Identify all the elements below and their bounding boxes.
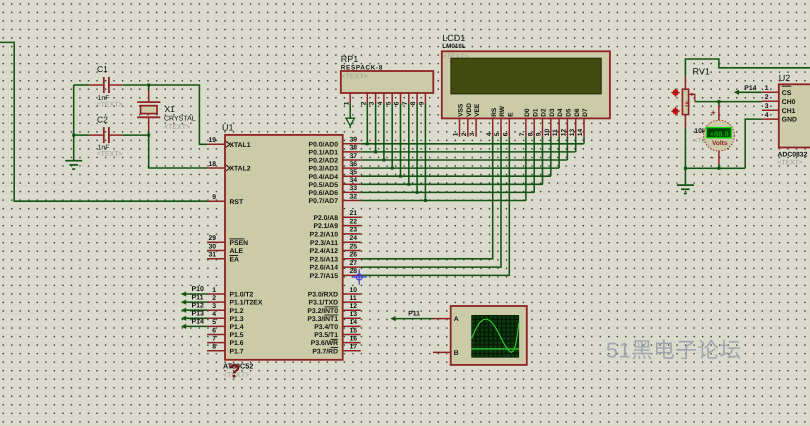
svg-text:P1.1/T2EX: P1.1/T2EX bbox=[230, 300, 263, 307]
svg-text:CH1: CH1 bbox=[782, 108, 796, 115]
svg-text:<TEXT>: <TEXT> bbox=[164, 124, 190, 131]
svg-text:39: 39 bbox=[350, 137, 358, 144]
U1 pin P0.5/AD5 (34) bbox=[309, 177, 361, 189]
capacitor C2 bbox=[89, 115, 122, 159]
svg-text:36: 36 bbox=[350, 161, 358, 168]
U1 pin P3.2/INT0 (12) bbox=[307, 303, 360, 315]
junction voltmeter minus bbox=[717, 167, 720, 170]
wire D6 vertical bbox=[575, 137, 577, 152]
svg-text:13: 13 bbox=[350, 311, 358, 318]
svg-text:P14: P14 bbox=[192, 319, 205, 326]
wire D3 vertical bbox=[550, 137, 552, 177]
svg-text:P0.6/AD6: P0.6/AD6 bbox=[309, 190, 339, 197]
wire rail to U2 GND bbox=[745, 119, 762, 168]
svg-text:8: 8 bbox=[527, 132, 534, 136]
svg-text:28: 28 bbox=[350, 268, 358, 275]
svg-text:34: 34 bbox=[350, 177, 358, 184]
svg-text:P3.6/WR: P3.6/WR bbox=[311, 340, 338, 347]
net label P11 wire (scope A) bbox=[390, 311, 433, 322]
svg-text:LCD1: LCD1 bbox=[442, 33, 465, 43]
RP1 pin 2 bbox=[360, 93, 368, 145]
U1 pin P1.7 (8) bbox=[207, 344, 244, 356]
wire P0.1 row bbox=[361, 151, 576, 153]
svg-text:D1: D1 bbox=[532, 108, 539, 117]
RP1 pin 7 bbox=[402, 93, 410, 186]
svg-text:19: 19 bbox=[208, 137, 216, 144]
svg-text:16: 16 bbox=[350, 335, 358, 342]
svg-text:P2.2/A10: P2.2/A10 bbox=[310, 232, 339, 239]
svg-text:VDD: VDD bbox=[466, 103, 473, 117]
svg-text:P0.0/AD0: P0.0/AD0 bbox=[309, 141, 339, 148]
ground (C1/C2) bbox=[65, 161, 82, 169]
wire E to P2.7 bbox=[361, 137, 510, 276]
svg-text:P3.4/T0: P3.4/T0 bbox=[314, 324, 338, 331]
junction crystal top bbox=[147, 84, 150, 87]
scope trace B (flat) bbox=[471, 348, 519, 350]
svg-text:D0: D0 bbox=[524, 108, 531, 117]
U1 pin XTAL2 (18) bbox=[207, 161, 251, 173]
svg-text:?: ? bbox=[229, 362, 241, 383]
svg-text:RV1: RV1 bbox=[693, 67, 710, 77]
scope trace A (sine) bbox=[472, 319, 520, 352]
svg-text:P2.6/A14: P2.6/A14 bbox=[310, 265, 339, 272]
svg-text:22: 22 bbox=[350, 218, 358, 225]
svg-text:<TEXT>: <TEXT> bbox=[97, 102, 123, 109]
U1 pin P0.1/AD1 (38) bbox=[309, 145, 361, 157]
wire C2 right to crystal bbox=[122, 134, 148, 136]
U2 pin CS (1) bbox=[762, 85, 792, 97]
terminal dot bottom bbox=[672, 108, 678, 114]
svg-text:D5: D5 bbox=[566, 108, 573, 117]
svg-text:5: 5 bbox=[212, 319, 216, 326]
U1 pin P2.6/A14 (27) bbox=[310, 260, 361, 272]
U1 pin P2.3/A11 (24) bbox=[310, 235, 361, 247]
wire D4 vertical bbox=[558, 137, 560, 169]
svg-text:P0.2/AD2: P0.2/AD2 bbox=[309, 158, 339, 165]
U1 pin P3.1/TXD (11) bbox=[309, 295, 361, 307]
wire C1 left bbox=[74, 84, 90, 86]
terminal dot top bbox=[672, 90, 678, 96]
RP1 pin 9 bbox=[419, 93, 427, 202]
svg-text:P11: P11 bbox=[192, 294, 204, 301]
U1 pin P1.1/T2EX (2) bbox=[207, 295, 263, 307]
U1 value AT89C52 bbox=[223, 362, 253, 383]
svg-text:5: 5 bbox=[385, 101, 392, 105]
svg-text:32: 32 bbox=[350, 193, 358, 200]
svg-text:VSS: VSS bbox=[458, 103, 465, 117]
svg-text:P1.7: P1.7 bbox=[230, 348, 244, 355]
svg-text:P13: P13 bbox=[192, 311, 205, 318]
U1 pin P2.2/A10 (23) bbox=[310, 227, 361, 239]
svg-text:GND: GND bbox=[782, 117, 797, 124]
svg-text:29: 29 bbox=[208, 235, 216, 242]
svg-text:6: 6 bbox=[502, 132, 509, 136]
svg-text:RP1: RP1 bbox=[341, 54, 359, 64]
U1 pin P2.1/A9 (22) bbox=[313, 218, 360, 230]
svg-text:38: 38 bbox=[350, 145, 358, 152]
U1 pin P0.4/AD4 (35) bbox=[309, 169, 361, 181]
svg-text:P3.3/INT1: P3.3/INT1 bbox=[307, 316, 338, 323]
wire P0.0 row bbox=[361, 143, 584, 145]
svg-text:EA: EA bbox=[230, 256, 240, 263]
svg-text:25: 25 bbox=[350, 243, 358, 250]
cursor crosshair bbox=[352, 269, 367, 284]
svg-text:3: 3 bbox=[469, 132, 476, 136]
svg-text:P0.4/AD4: P0.4/AD4 bbox=[309, 174, 339, 181]
RP1 pin 3 bbox=[369, 93, 377, 153]
lcd LCD1 body bbox=[442, 33, 610, 118]
junction wiper/voltmeter bbox=[717, 100, 720, 103]
capacitor C1 bbox=[89, 64, 122, 109]
U1 pin P3.5/T1 (15) bbox=[314, 327, 361, 339]
svg-text:D4: D4 bbox=[557, 108, 564, 117]
svg-text:6: 6 bbox=[212, 327, 216, 334]
wire P0.3 row bbox=[361, 167, 559, 169]
wire C1 right to XTAL1 bbox=[122, 85, 207, 144]
svg-text:P1.5: P1.5 bbox=[230, 332, 244, 339]
svg-text:U1: U1 bbox=[222, 123, 234, 133]
wire D7 vertical bbox=[583, 137, 585, 144]
svg-text:CS: CS bbox=[782, 90, 792, 97]
RP1 pin 8 bbox=[410, 93, 418, 194]
svg-text:17: 17 bbox=[350, 344, 358, 351]
svg-text:P10: P10 bbox=[192, 286, 205, 293]
RP1 pin 6 bbox=[394, 93, 402, 178]
svg-text:9: 9 bbox=[212, 194, 216, 201]
wire P0.5 row bbox=[361, 183, 543, 185]
RP1 pin 5 bbox=[385, 93, 393, 170]
net label P10 wire bbox=[181, 286, 207, 296]
svg-text:D6: D6 bbox=[574, 108, 581, 117]
svg-text:1k: 1k bbox=[684, 100, 691, 107]
svg-text:1: 1 bbox=[212, 287, 216, 294]
svg-text:9: 9 bbox=[419, 101, 426, 105]
svg-text:30: 30 bbox=[208, 243, 216, 250]
oscilloscope body bbox=[433, 306, 527, 365]
svg-text:P3.7/RD: P3.7/RD bbox=[312, 348, 338, 355]
svg-text:P3.5/T1: P3.5/T1 bbox=[314, 332, 338, 339]
svg-text:21: 21 bbox=[350, 210, 358, 217]
resistor pack RP1 body bbox=[341, 54, 434, 93]
svg-text:8: 8 bbox=[212, 344, 216, 351]
svg-text:4: 4 bbox=[765, 112, 769, 119]
wire from left edge to RST bbox=[0, 42, 207, 201]
svg-text:13: 13 bbox=[569, 129, 576, 137]
svg-text:3: 3 bbox=[369, 101, 376, 105]
LCD pin D0 (7) bbox=[519, 108, 531, 136]
svg-text:X1: X1 bbox=[165, 104, 176, 114]
svg-text:33: 33 bbox=[350, 185, 358, 192]
wire RW to P2.6 bbox=[361, 137, 501, 268]
svg-text:35: 35 bbox=[350, 169, 358, 176]
svg-text:P2.0/A8: P2.0/A8 bbox=[313, 215, 338, 222]
net label P14 wire bbox=[181, 319, 207, 329]
U1 pin P0.0/AD0 (39) bbox=[309, 137, 361, 149]
power terminal (RP1 pin1) bbox=[346, 118, 355, 125]
U1 pin P2.4/A12 (25) bbox=[310, 243, 361, 255]
wire D0 vertical bbox=[525, 137, 527, 201]
svg-text:7: 7 bbox=[212, 335, 216, 342]
U1 pin P2.0/A8 (21) bbox=[313, 210, 360, 222]
svg-text:27: 27 bbox=[350, 260, 358, 267]
LCD pin VEE (3) bbox=[469, 103, 481, 136]
svg-text:CRYSTAL: CRYSTAL bbox=[164, 116, 196, 123]
svg-text:12: 12 bbox=[561, 129, 568, 137]
svg-text:D3: D3 bbox=[549, 108, 556, 117]
svg-text:10: 10 bbox=[544, 129, 551, 137]
LCD pin D3 (10) bbox=[544, 108, 556, 136]
voltmeter bbox=[704, 102, 735, 169]
wire P0.6 row bbox=[361, 191, 535, 193]
U2 pin CH1 (3) bbox=[762, 103, 796, 115]
svg-text:10: 10 bbox=[350, 287, 358, 294]
U1 pin P1.3 (4) bbox=[207, 311, 244, 323]
wire C1/C2 vertical bbox=[73, 85, 75, 160]
wire pot bottom bbox=[684, 128, 686, 168]
svg-text:51黑电子论坛: 51黑电子论坛 bbox=[606, 339, 742, 363]
svg-text:4: 4 bbox=[486, 132, 493, 136]
wire pot top to right edge bbox=[685, 59, 810, 76]
LCD pin D4 (11) bbox=[552, 108, 564, 136]
junction crystal/C2 bbox=[147, 134, 150, 137]
svg-text:15: 15 bbox=[350, 327, 358, 334]
LCD pin VSS (1) bbox=[453, 103, 465, 136]
svg-text:P3.2/INT0: P3.2/INT0 bbox=[307, 308, 338, 315]
svg-text:P0.5/AD5: P0.5/AD5 bbox=[309, 182, 339, 189]
U1 pin EA (31) bbox=[207, 252, 239, 264]
svg-text:ADC0832: ADC0832 bbox=[778, 152, 808, 159]
svg-text:+88.8: +88.8 bbox=[710, 130, 729, 139]
U2 pin GND (4) bbox=[762, 112, 797, 124]
U1 pin P0.6/AD6 (33) bbox=[309, 185, 361, 197]
svg-text:P0.7/AD7: P0.7/AD7 bbox=[309, 198, 339, 205]
wire wiper to CH0 bbox=[695, 101, 762, 103]
U1 pin P0.2/AD2 (37) bbox=[309, 153, 361, 165]
LCD pin D6 (13) bbox=[569, 108, 581, 136]
svg-text:RESPACK-8: RESPACK-8 bbox=[341, 65, 383, 72]
crystal X1 bbox=[137, 90, 195, 131]
svg-text:P1.0/T2: P1.0/T2 bbox=[230, 292, 254, 299]
svg-text:23: 23 bbox=[350, 227, 358, 234]
potentiometer RV1 bbox=[682, 67, 719, 145]
U1 pin RST (9) bbox=[207, 194, 244, 206]
RP1 pin 4 bbox=[377, 93, 385, 162]
wire crystal top bbox=[148, 85, 150, 90]
U1 pin XTAL1 (19) bbox=[207, 137, 251, 149]
svg-text:37: 37 bbox=[350, 153, 358, 160]
svg-text:P2.7/A15: P2.7/A15 bbox=[310, 273, 339, 280]
LCD pin D1 (8) bbox=[527, 108, 539, 136]
U1 pin P3.3/INT1 (13) bbox=[307, 311, 360, 323]
U1 pin P3.6/WR (16) bbox=[311, 335, 361, 347]
U1 pin PSEN (29) bbox=[207, 235, 248, 247]
svg-text:B: B bbox=[454, 350, 459, 357]
svg-text:2: 2 bbox=[360, 101, 367, 105]
svg-text:2: 2 bbox=[765, 94, 769, 101]
svg-text:P1.6: P1.6 bbox=[230, 340, 244, 347]
svg-text:<TEXT>: <TEXT> bbox=[97, 151, 123, 158]
svg-text:D2: D2 bbox=[541, 108, 548, 117]
net label P12 wire bbox=[181, 302, 207, 312]
svg-text:P0.1/AD1: P0.1/AD1 bbox=[309, 150, 339, 157]
svg-text:1: 1 bbox=[765, 85, 769, 92]
svg-text:5: 5 bbox=[494, 132, 501, 136]
LCD pin D5 (12) bbox=[561, 108, 573, 136]
svg-text:P2.1/A9: P2.1/A9 bbox=[313, 223, 338, 230]
svg-text:2: 2 bbox=[461, 132, 468, 136]
U1 pin P3.7/RD (17) bbox=[312, 344, 360, 356]
wire crystal bottom to XTAL2 bbox=[149, 131, 207, 168]
svg-text:<TEXT>: <TEXT> bbox=[778, 160, 803, 167]
svg-text:6: 6 bbox=[394, 101, 401, 105]
U1 pin P1.2 (3) bbox=[207, 303, 244, 315]
wire D1 vertical bbox=[533, 137, 535, 193]
U1 pin P2.5/A13 (26) bbox=[310, 252, 361, 264]
LCD pin RS (4) bbox=[486, 107, 498, 136]
svg-text:8: 8 bbox=[410, 101, 417, 105]
svg-text:P2.3/A11: P2.3/A11 bbox=[310, 240, 338, 247]
ground (RV1 rail) bbox=[677, 185, 694, 193]
svg-text:RST: RST bbox=[230, 199, 244, 206]
svg-text:D7: D7 bbox=[582, 108, 589, 117]
U1 pin P0.3/AD3 (36) bbox=[309, 161, 361, 173]
LCD pin D2 (9) bbox=[536, 108, 548, 136]
svg-text:P11: P11 bbox=[408, 311, 420, 318]
junction pot bottom bbox=[684, 167, 687, 170]
svg-text:-: - bbox=[711, 152, 714, 162]
svg-text:LM016L: LM016L bbox=[442, 43, 466, 50]
wire D5 vertical bbox=[566, 137, 568, 160]
U2 value ADC0832 bbox=[778, 152, 808, 167]
svg-text:4: 4 bbox=[212, 311, 216, 318]
LCD pin E (6) bbox=[502, 112, 514, 137]
svg-text:P3.1/TXD: P3.1/TXD bbox=[309, 300, 339, 307]
svg-text:4: 4 bbox=[377, 101, 384, 105]
svg-text:1: 1 bbox=[453, 132, 460, 136]
wire D2 vertical bbox=[542, 137, 544, 185]
U1 pin P1.6 (7) bbox=[207, 335, 244, 347]
lcd screen bbox=[451, 58, 601, 94]
svg-text:P1.3: P1.3 bbox=[230, 316, 244, 323]
net label P13 wire bbox=[181, 311, 207, 321]
svg-text:P14: P14 bbox=[744, 85, 756, 92]
wire ground rail bbox=[685, 167, 745, 169]
LCD pin D7 (14) bbox=[577, 108, 589, 136]
svg-text:C2: C2 bbox=[97, 115, 108, 125]
svg-text:CH0: CH0 bbox=[782, 99, 796, 106]
wire P0.2 row bbox=[361, 159, 568, 161]
svg-text:31: 31 bbox=[208, 252, 216, 259]
U1 pin ALE (30) bbox=[207, 243, 244, 255]
U1 pin P1.5 (6) bbox=[207, 327, 244, 339]
svg-text:2: 2 bbox=[212, 295, 216, 302]
wire P0.7 row bbox=[361, 200, 527, 202]
svg-text:P1.2: P1.2 bbox=[230, 308, 244, 315]
svg-text:14: 14 bbox=[350, 319, 358, 326]
svg-text:14: 14 bbox=[577, 129, 584, 137]
adc U2 body bbox=[779, 73, 810, 148]
svg-text:P2.5/A13: P2.5/A13 bbox=[310, 256, 339, 263]
svg-text:P2.4/A12: P2.4/A12 bbox=[310, 248, 339, 255]
svg-text:<TEXT>: <TEXT> bbox=[342, 74, 368, 81]
svg-text:P1.4: P1.4 bbox=[230, 324, 244, 331]
net label P11 wire bbox=[181, 294, 207, 304]
wire P0.4 row bbox=[361, 175, 551, 177]
svg-text:26: 26 bbox=[350, 252, 358, 259]
svg-text:24: 24 bbox=[350, 235, 358, 242]
svg-text:7: 7 bbox=[519, 132, 526, 136]
svg-text:XTAL2: XTAL2 bbox=[230, 166, 251, 173]
svg-text:7: 7 bbox=[402, 101, 409, 105]
svg-text:9: 9 bbox=[536, 132, 543, 136]
svg-text:11: 11 bbox=[552, 129, 559, 136]
svg-text:3: 3 bbox=[212, 303, 216, 310]
U1 pin P0.7/AD7 (32) bbox=[309, 193, 361, 205]
U1 pin P1.4 (5) bbox=[207, 319, 244, 331]
svg-text:VEE: VEE bbox=[474, 103, 481, 117]
net label P14 wire (U2 CS) bbox=[734, 85, 762, 95]
U1 pin P2.7/A15 (28) bbox=[310, 268, 361, 280]
svg-text:P12: P12 bbox=[192, 302, 205, 309]
svg-text:RS: RS bbox=[491, 107, 498, 117]
svg-text:ALE: ALE bbox=[230, 248, 244, 255]
svg-text:3: 3 bbox=[765, 103, 769, 110]
oscilloscope screen bbox=[471, 315, 519, 358]
svg-text:RW: RW bbox=[499, 105, 506, 117]
svg-text:12: 12 bbox=[350, 303, 358, 310]
RP1 pin 1 bbox=[343, 93, 350, 118]
svg-text:C1: C1 bbox=[97, 64, 108, 74]
svg-text:XTAL1: XTAL1 bbox=[230, 142, 251, 149]
U1 pin P1.0/T2 (1) bbox=[207, 287, 254, 299]
wire rail to ground bbox=[684, 168, 686, 185]
svg-text:1: 1 bbox=[343, 101, 350, 105]
svg-text:Volts: Volts bbox=[712, 140, 728, 147]
U1 pin P3.4/T0 (14) bbox=[314, 319, 361, 331]
svg-text:U2: U2 bbox=[779, 73, 791, 83]
LCD pin VDD (2) bbox=[461, 103, 473, 137]
LCD pin RW (5) bbox=[494, 105, 506, 136]
svg-text:11: 11 bbox=[350, 295, 357, 302]
svg-text:P3.0/RXD: P3.0/RXD bbox=[308, 292, 338, 299]
wire C2 left bbox=[74, 134, 90, 136]
U1 pin P3.0/RXD (10) bbox=[308, 287, 361, 299]
svg-text:P0.3/AD3: P0.3/AD3 bbox=[309, 166, 339, 173]
svg-text:PSEN: PSEN bbox=[230, 240, 249, 247]
svg-text:18: 18 bbox=[208, 161, 216, 168]
svg-text:+: + bbox=[711, 107, 716, 117]
junction C2 left bbox=[72, 134, 75, 137]
U2 pin CH0 (2) bbox=[762, 94, 796, 106]
svg-text:E: E bbox=[507, 112, 514, 117]
svg-text:A: A bbox=[454, 316, 459, 323]
wire RS to P2.5 bbox=[361, 137, 493, 259]
mcu U1 body bbox=[222, 123, 343, 360]
